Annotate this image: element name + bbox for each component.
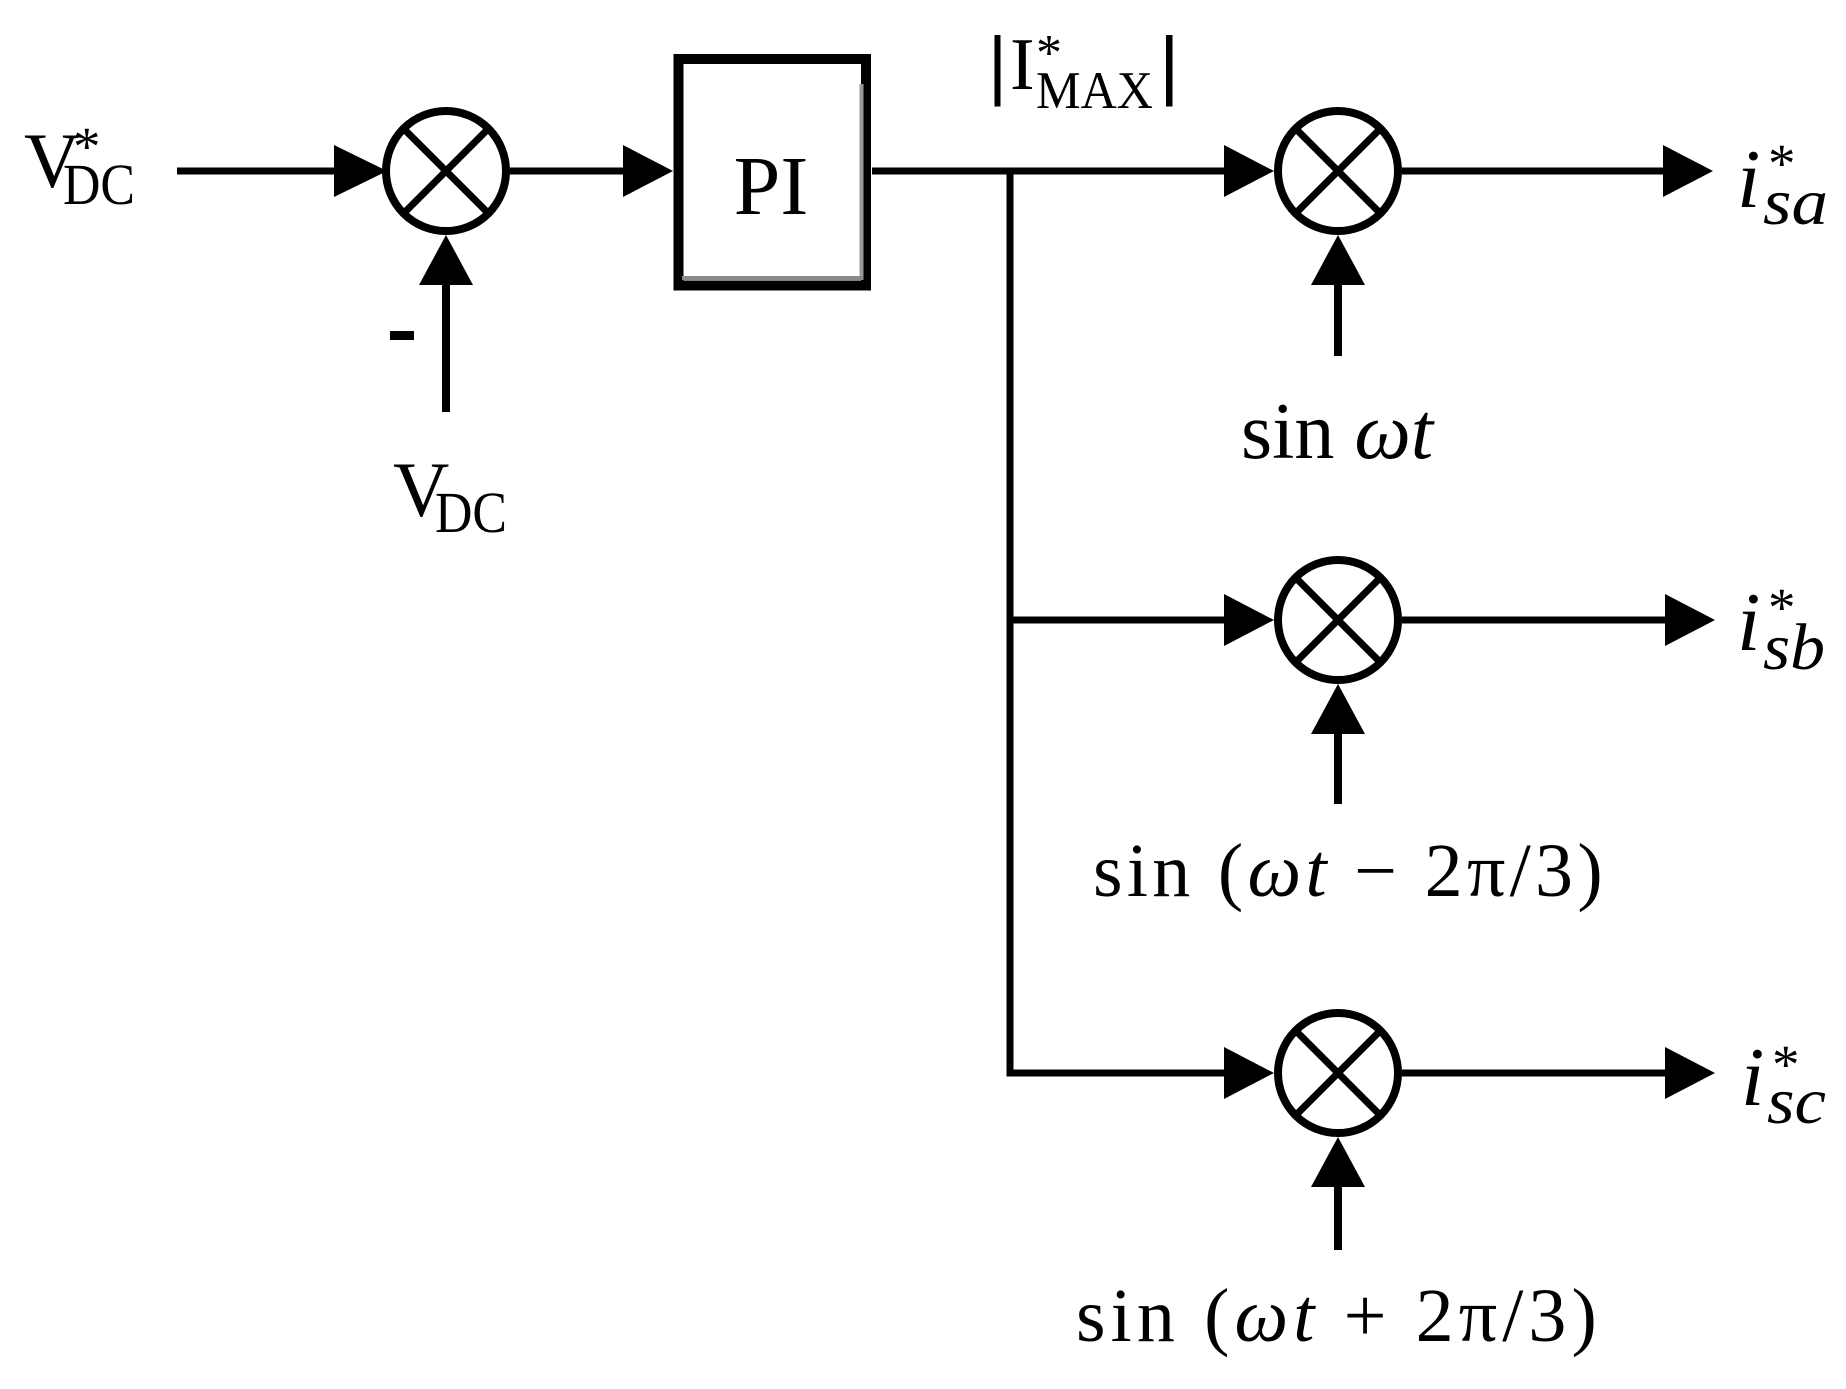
node i*sa output label — [1737, 133, 1828, 239]
svg-text:i: i — [1741, 1031, 1764, 1124]
wire W2: VDC feedback up into S1 — [442, 285, 450, 412]
svg-text:sin ωt: sin ωt — [1241, 388, 1435, 476]
arrowhead W10 — [1224, 1047, 1274, 1099]
summing junction S1 (circle with X) — [386, 111, 506, 231]
node V*DC input label — [24, 116, 135, 217]
svg-text:MAX: MAX — [1036, 62, 1153, 120]
node |I*MAX| label — [995, 24, 1173, 120]
controller block PI — [679, 59, 867, 286]
wire W6: sin wt input up into M1 — [1334, 285, 1342, 356]
arrowhead W7 — [1224, 594, 1274, 646]
arrowhead W6 — [1311, 235, 1365, 285]
wire W5: M1 output to i*sa — [1402, 168, 1665, 175]
wire W4: PI output to multiplier M1 — [872, 168, 1226, 175]
svg-text:sa: sa — [1763, 166, 1828, 239]
arrowhead W12 — [1311, 1137, 1365, 1187]
branch bus B1: vertical line feeding rows b and c — [1007, 168, 1014, 1077]
arrowhead W2 — [419, 235, 473, 285]
node VDC feedback label — [393, 446, 507, 545]
svg-text:DC: DC — [63, 152, 135, 217]
arrowhead W1 — [334, 145, 387, 197]
svg-text:I: I — [1010, 24, 1035, 106]
wire W8: M2 output to i*sb — [1402, 617, 1667, 624]
arrowhead W9 — [1311, 684, 1365, 734]
svg-text:sb: sb — [1763, 611, 1825, 684]
svg-text:i: i — [1737, 133, 1760, 226]
minus sign at S1 feedback input — [390, 331, 414, 340]
wire W10: branch to multiplier M3 — [1010, 1070, 1226, 1077]
svg-text:i: i — [1737, 576, 1760, 669]
node i*sc output label — [1741, 1031, 1826, 1138]
arrowhead W8 — [1665, 594, 1715, 646]
wire W1: V*DC to summer S1 — [177, 168, 334, 175]
arrowhead W3 — [623, 145, 673, 197]
arrowhead W11 — [1665, 1047, 1715, 1099]
wire W9: sin(wt-2pi/3) input up into M2 — [1334, 734, 1342, 804]
svg-text:sc: sc — [1767, 1065, 1826, 1138]
arrowhead W4 — [1224, 145, 1274, 197]
arrowhead W5 — [1663, 145, 1713, 197]
svg-text:DC: DC — [435, 480, 507, 545]
wire W3: S1 to PI block — [510, 168, 625, 175]
multiplier M3 (circle with X) — [1278, 1013, 1398, 1133]
svg-text:sin (ωt + 2π/3): sin (ωt + 2π/3) — [1076, 1274, 1602, 1358]
multiplier M1 (circle with X) — [1278, 111, 1398, 231]
wire W11: M3 output to i*sc — [1402, 1070, 1667, 1077]
multiplier M2 (circle with X) — [1278, 560, 1398, 680]
node i*sb output label — [1737, 576, 1825, 684]
svg-text:sin (ωt − 2π/3): sin (ωt − 2π/3) — [1093, 829, 1607, 913]
svg-text:PI: PI — [734, 140, 809, 233]
wire W12: sin(wt+2pi/3) input up into M3 — [1334, 1187, 1342, 1250]
wire W7: branch to multiplier M2 — [1010, 617, 1226, 624]
